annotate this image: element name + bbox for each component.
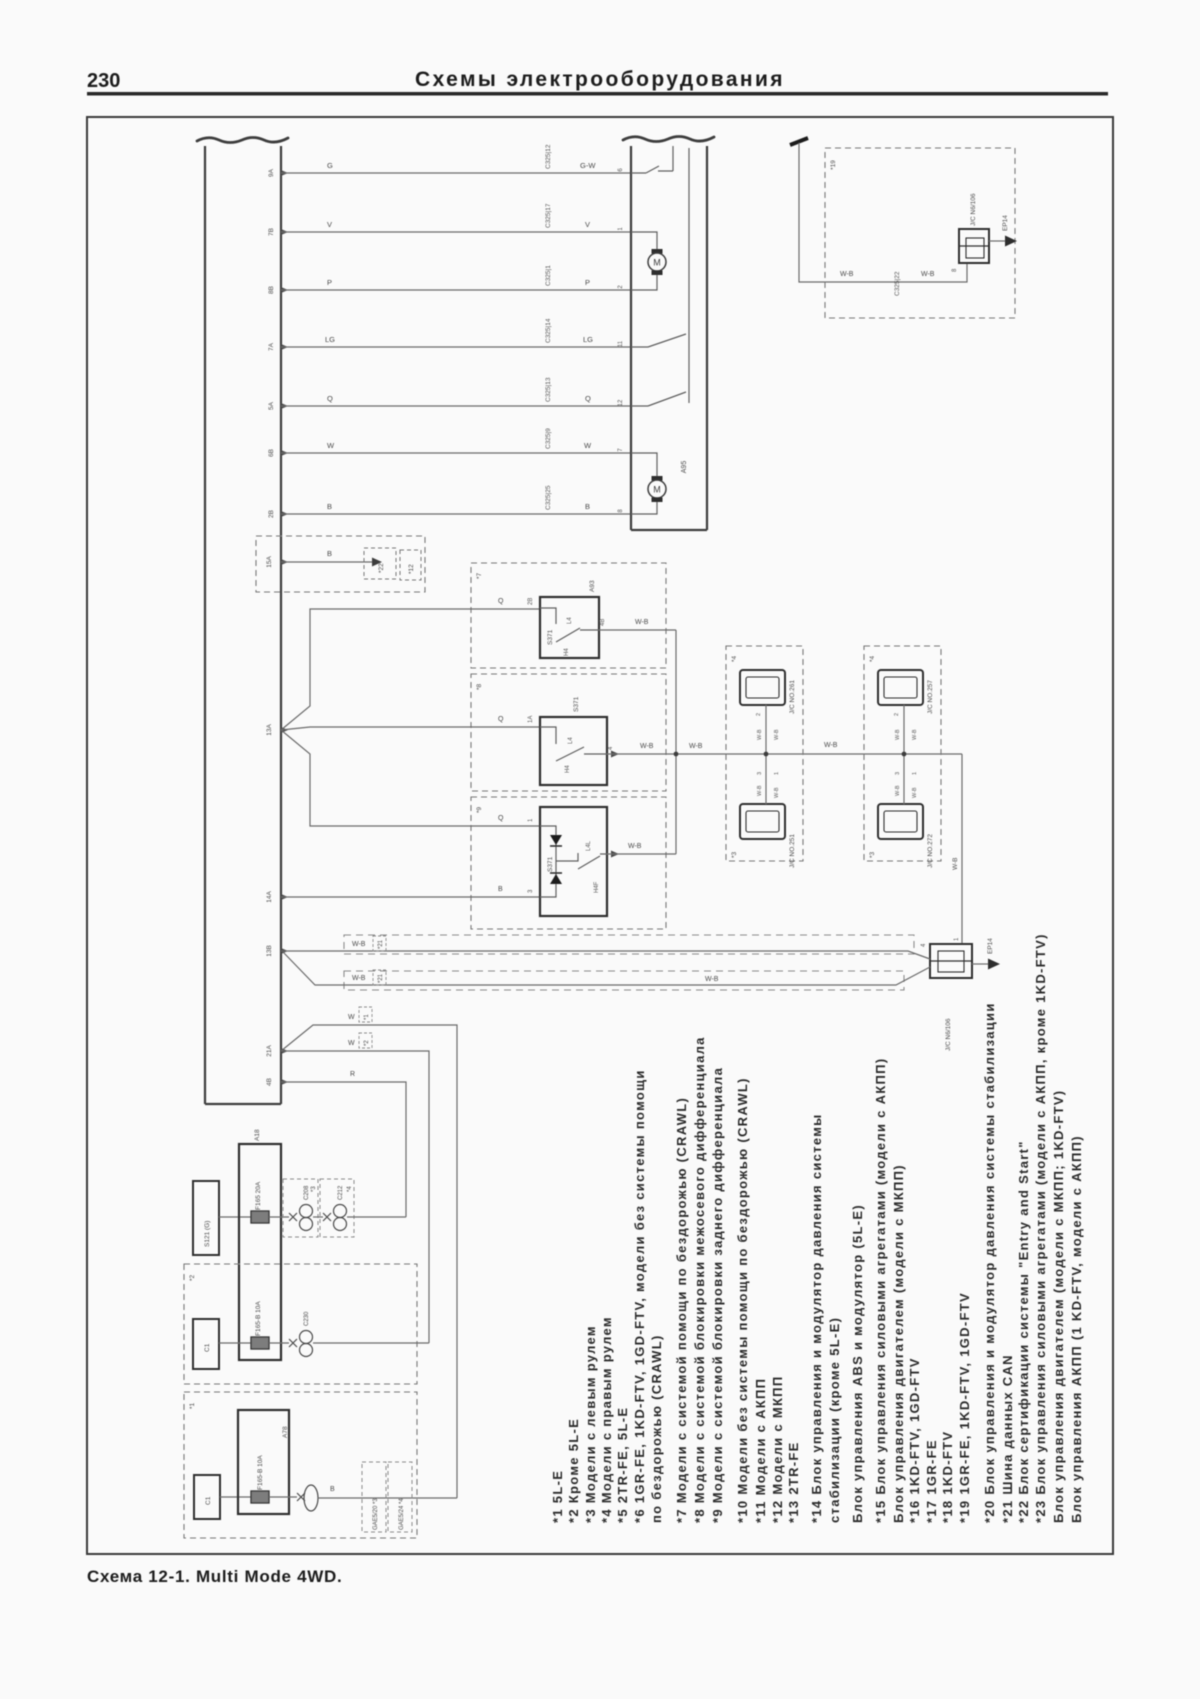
dashed box *2 outer (184, 1264, 417, 1384)
svg-text:*22 Блок сертификации системы: *22 Блок сертификации системы "Entry and… (1016, 1140, 1031, 1523)
wire B to certification unit (281, 561, 372, 563)
svg-text:12: 12 (618, 399, 624, 406)
svg-text:G: G (327, 161, 333, 170)
svg-text:3: 3 (528, 889, 534, 893)
fuse F165-B A78 element (251, 1491, 269, 1503)
svg-text:7A: 7A (268, 342, 275, 351)
wire C212 onward (347, 1216, 406, 1218)
wire B (2B to A95 pin 8) (281, 513, 631, 515)
motor M1 feed (V) (631, 232, 657, 250)
wire V (7B to A95 pin 1) (281, 231, 631, 233)
svg-text:2: 2 (894, 713, 900, 716)
connector C208 X (289, 1213, 297, 1221)
relay S371-3 internal stem (540, 826, 556, 897)
dashed box *1 outer (184, 1392, 417, 1538)
wire S121 to fuse (219, 1216, 251, 1218)
pin tick 14A (281, 894, 288, 900)
relay A93 out wire W-B (599, 629, 676, 631)
svg-text:GAE5/24 *4: GAE5/24 *4 (399, 1498, 405, 1530)
svg-text:*6 1GR-FE, 1KD-FTV, 1GD-FTV, м: *6 1GR-FE, 1KD-FTV, 1GD-FTV, модели без … (632, 1069, 647, 1523)
svg-text:*9 Модели с системой блокировк: *9 Модели с системой блокировки заднего … (710, 1067, 725, 1523)
svg-text:4: 4 (608, 746, 614, 750)
relay S371-3 out arrow (611, 851, 619, 858)
dashed box *22 (364, 548, 396, 579)
svg-text:2B: 2B (268, 510, 275, 518)
ground feed wire W-B (799, 143, 967, 282)
wire 14A to relay S371-3 low (281, 896, 540, 898)
svg-text:J/C N6/106: J/C N6/106 (945, 1018, 952, 1051)
svg-text:EP14: EP14 (1002, 215, 1009, 231)
svg-text:6: 6 (618, 168, 624, 172)
pin tick 9A (281, 170, 288, 176)
internal bus line (688, 148, 690, 403)
J/C NO.272 outer (878, 804, 923, 839)
fuse F165 element (251, 1211, 269, 1223)
pair2 junction dot (902, 752, 907, 757)
svg-text:C325|13: C325|13 (545, 377, 552, 402)
svg-text:*7 Модели с системой помощи по: *7 Модели с системой помощи по бездорожь… (674, 1097, 689, 1523)
dashed tag high (373, 936, 386, 951)
svg-text:C325|12: C325|12 (545, 144, 552, 169)
ECU bus right edge wire (280, 146, 282, 1104)
motor M2 return (B) (631, 501, 657, 514)
svg-text:V: V (585, 220, 590, 229)
svg-text:GAE5/20 *3: GAE5/20 *3 (373, 1498, 379, 1530)
svg-text:W-B: W-B (352, 975, 366, 982)
svg-text:*2 Кроме 5L-E: *2 Кроме 5L-E (566, 1418, 581, 1523)
motor M2 feed (W) (631, 453, 657, 477)
svg-text:L4: L4 (568, 737, 574, 744)
svg-text:Q: Q (498, 815, 504, 822)
motor M2 body (648, 480, 666, 498)
svg-text:*16 1KD-FTV, 1GD-FTV: *16 1KD-FTV, 1GD-FTV (907, 1357, 922, 1523)
motor M1 body (648, 253, 666, 271)
motor M1 return (P) (631, 274, 657, 290)
junction J/C No.6/106 inner (966, 238, 984, 258)
svg-text:Схема 12-1. Multi Mode 4WD.: Схема 12-1. Multi Mode 4WD. (87, 1567, 342, 1586)
svg-text:W: W (348, 1014, 355, 1021)
svg-text:13A: 13A (266, 724, 273, 736)
dashed box pair2 (864, 646, 941, 861)
svg-text:6B: 6B (268, 449, 275, 457)
svg-text:J/C N6/106: J/C N6/106 (970, 193, 977, 226)
junction dot collector (674, 752, 679, 757)
connector oval (304, 1485, 318, 1511)
actuator A95 box bottom edge (631, 529, 707, 531)
dashed shield CAN low (344, 971, 904, 990)
svg-text:W: W (348, 1040, 355, 1047)
svg-text:P: P (585, 278, 590, 287)
svg-text:*5 2TR-FE, 5L-E: *5 2TR-FE, 5L-E (615, 1407, 630, 1523)
fuse F165-B element (251, 1337, 269, 1349)
fan wire 13A to relay A93 (281, 609, 540, 730)
svg-text:стабилизации (кроме 5L-E): стабилизации (кроме 5L-E) (827, 1317, 842, 1523)
svg-text:1: 1 (954, 937, 960, 941)
svg-text:W-B: W-B (774, 729, 780, 740)
svg-text:8: 8 (952, 268, 958, 272)
svg-text:B: B (585, 502, 590, 511)
svg-text:B: B (327, 549, 332, 558)
svg-text:C230: C230 (304, 1311, 310, 1326)
svg-text:C212: C212 (338, 1185, 344, 1200)
svg-text:9A: 9A (268, 168, 275, 177)
svg-text:A78: A78 (282, 1426, 289, 1438)
motor M2 brush top (652, 476, 663, 481)
J/C NO.261 inner (746, 677, 779, 698)
wire Q (5A to A95 pin 12) (281, 405, 631, 407)
fuse block A78 (238, 1410, 289, 1514)
ECU bus torn-top wavy break (197, 138, 288, 143)
dashed box *7 (471, 563, 666, 668)
svg-text:*11 Модели с АКПП: *11 Модели с АКПП (753, 1378, 768, 1523)
svg-text:*22: *22 (378, 563, 385, 573)
svg-text:M: M (653, 485, 661, 495)
dashed tag *2 (359, 1033, 372, 1048)
svg-text:W-B: W-B (689, 743, 703, 750)
relay S371-2 out wire (607, 753, 962, 755)
dashed tag *1 (359, 1007, 372, 1022)
J/C NO.251 inner (746, 811, 779, 832)
header rule (87, 92, 1108, 96)
wire W (6B to A95 pin 7) (281, 452, 631, 454)
svg-text:*15 Блок управления силовыми а: *15 Блок управления силовыми агрегатами … (873, 1058, 888, 1523)
svg-text:C325|1: C325|1 (545, 265, 552, 286)
ground EP14 arrow (988, 959, 1000, 970)
svg-text:Блок управления ABS и модулято: Блок управления ABS и модулятор (5L-E) (850, 1204, 865, 1523)
svg-text:J/C NO.272: J/C NO.272 (927, 834, 934, 868)
connector oval X (297, 1493, 305, 1501)
schematic outer border frame (87, 117, 1113, 1554)
svg-text:11: 11 (618, 340, 624, 347)
J/C NO.257 outer (878, 670, 923, 705)
pair1 link wire (765, 705, 767, 804)
svg-text:Блок управления двигателем (мо: Блок управления двигателем (модели с МКП… (891, 1164, 906, 1523)
pin tick 7A (281, 344, 288, 350)
svg-text:W: W (584, 441, 592, 450)
relay S371-3 out wire (607, 853, 676, 855)
svg-text:7B: 7B (268, 228, 275, 236)
connector C208 circle2 (300, 1218, 313, 1231)
dashed box pair1 (726, 646, 803, 861)
relay S371-2 internals (540, 727, 607, 761)
connector C1 lower box (194, 1475, 220, 1519)
svg-text:Схемы электрооборудования: Схемы электрооборудования (415, 68, 785, 91)
fuse block A18 (239, 1144, 281, 1360)
pin tick 6B (281, 450, 288, 456)
J/C NO.251 outer (740, 804, 785, 839)
svg-text:LG: LG (583, 335, 593, 344)
svg-text:A93: A93 (589, 580, 596, 592)
diode D2 bar (550, 872, 562, 874)
pin tick 15A (281, 559, 288, 565)
svg-text:13B: 13B (266, 945, 273, 957)
svg-text:1: 1 (528, 818, 534, 822)
junction divider (930, 960, 972, 962)
svg-text:*2: *2 (364, 1040, 370, 1046)
svg-text:4B: 4B (266, 1078, 273, 1086)
wire C230 onward (313, 1342, 429, 1344)
svg-text:H4F: H4F (594, 881, 600, 893)
svg-text:W-B: W-B (774, 787, 780, 798)
svg-text:*1: *1 (189, 1402, 196, 1409)
svg-text:*21 Шина данных CAN: *21 Шина данных CAN (1000, 1354, 1015, 1523)
switch S121 box (193, 1181, 219, 1255)
svg-text:H4: H4 (565, 765, 571, 773)
svg-text:Блок управления АКПП (1 KD-FTV: Блок управления АКПП (1 KD-FTV, модели с… (1069, 1135, 1084, 1523)
svg-text:*3: *3 (311, 1186, 317, 1192)
svg-text:F165-B 10A: F165-B 10A (257, 1455, 264, 1490)
feed wire W *2 (281, 1051, 429, 1343)
dashed box around 15A wire (256, 536, 425, 592)
pin tick 7B (281, 229, 288, 235)
svg-text:C325|14: C325|14 (545, 318, 552, 343)
wire C208 to C212 (313, 1216, 323, 1218)
svg-text:W-B: W-B (757, 729, 763, 740)
svg-text:*8 Модели с системой блокировк: *8 Модели с системой блокировки межосево… (692, 1036, 707, 1523)
pin tick 13A (281, 727, 288, 733)
svg-text:230: 230 (87, 70, 120, 92)
pair2 link wire (903, 705, 905, 804)
W-B down wire (961, 754, 963, 944)
wire arrowhead (372, 558, 382, 567)
svg-text:W-B: W-B (640, 743, 654, 750)
svg-text:W-B: W-B (628, 843, 642, 850)
svg-text:P: P (327, 278, 332, 287)
actuator A95 box left edge (630, 146, 632, 530)
svg-text:3: 3 (757, 772, 763, 775)
svg-text:C325|17: C325|17 (545, 203, 552, 228)
svg-text:*21: *21 (378, 973, 384, 983)
svg-text:Блок управления двигателем (мо: Блок управления двигателем (модели с МКП… (1051, 1090, 1066, 1523)
svg-text:L4L: L4L (586, 840, 592, 851)
svg-text:C325|22: C325|22 (894, 271, 901, 296)
svg-text:A18: A18 (254, 1129, 261, 1141)
svg-text:G-W: G-W (580, 161, 596, 170)
W-B collector line (675, 630, 677, 854)
wire to ground EP14 (989, 240, 1005, 242)
svg-text:*4: *4 (731, 655, 738, 662)
diode D1 (550, 835, 562, 845)
svg-text:2: 2 (756, 713, 762, 716)
svg-text:*3 Модели с левым рулем: *3 Модели с левым рулем (583, 1325, 598, 1523)
ECU bus bottom edge (205, 1103, 281, 1105)
actuator A95 box right edge (706, 146, 708, 530)
svg-text:1: 1 (774, 772, 780, 775)
svg-text:W-B: W-B (352, 941, 366, 948)
motor M1 brush top (652, 249, 663, 254)
relay S371-3 box (540, 807, 607, 916)
svg-text:C325|25: C325|25 (545, 485, 552, 510)
connector C212 circle2 (334, 1218, 347, 1231)
junction J/C No.6/106 divider (959, 245, 989, 247)
relay S371-2 box (540, 717, 607, 785)
diode D1 bar (550, 845, 562, 847)
svg-text:*12 Модели с МКПП: *12 Модели с МКПП (770, 1376, 785, 1523)
J/C NO.257 inner (884, 677, 917, 698)
svg-text:W-B: W-B (635, 619, 649, 626)
svg-text:*7: *7 (476, 572, 483, 579)
svg-text:8: 8 (618, 509, 624, 513)
J/C NO.272 inner (884, 811, 917, 832)
wire C1 to fuse A78 (220, 1496, 251, 1498)
svg-text:4B: 4B (600, 619, 606, 626)
svg-text:Q: Q (327, 394, 333, 403)
svg-text:W-B: W-B (912, 787, 918, 798)
svg-text:Q: Q (585, 394, 591, 403)
svg-text:B: B (498, 886, 503, 893)
svg-text:L4: L4 (567, 617, 573, 624)
dashed box *12 (400, 550, 421, 580)
svg-text:F165-B 10A: F165-B 10A (255, 1301, 262, 1336)
svg-text:*21: *21 (378, 939, 384, 949)
svg-text:*1 5L-E: *1 5L-E (550, 1470, 565, 1523)
pin tick 5A (281, 403, 288, 409)
svg-text:W-B: W-B (840, 271, 854, 278)
pin tick 2B (281, 511, 288, 517)
svg-text:W-B: W-B (757, 785, 763, 796)
svg-text:F165 20A: F165 20A (255, 1181, 262, 1210)
svg-text:W-B: W-B (895, 785, 901, 796)
svg-text:R: R (350, 1071, 355, 1078)
svg-text:LG: LG (325, 335, 335, 344)
svg-text:C1: C1 (204, 1343, 211, 1352)
wire G (9A to A95 pin 6) (281, 172, 631, 174)
svg-text:*4 Модели с правым рулем: *4 Модели с правым рулем (599, 1316, 614, 1523)
svg-text:H4: H4 (564, 648, 570, 656)
connector C230 X (289, 1339, 297, 1347)
svg-text:C208: C208 (304, 1185, 310, 1200)
ECU bus left edge wire (204, 146, 206, 1104)
svg-text:*10 Модели без системы помощи: *10 Модели без системы помощи по бездоро… (735, 1077, 750, 1523)
dashed tag low (373, 970, 386, 985)
svg-text:S371: S371 (547, 856, 554, 872)
motor M1 brush bottom (652, 271, 663, 276)
pin tick 4B (281, 1079, 288, 1085)
svg-text:B: B (330, 1486, 335, 1493)
relay A93 box (540, 597, 599, 658)
relay S371-2 out arrow (611, 751, 619, 758)
pin tick 21A (281, 1048, 288, 1054)
CAN low wire (283, 952, 930, 985)
fan wire 13A to relay S371-2 (281, 727, 540, 730)
svg-text:Q: Q (498, 716, 504, 723)
svg-text:*2: *2 (189, 1274, 196, 1281)
svg-text:Q: Q (498, 598, 504, 605)
relay A93 internals (540, 608, 599, 642)
dashed box *19 (825, 148, 1015, 318)
dashed box *9 (471, 797, 666, 929)
feed wire R (281, 1082, 406, 1217)
feed wire W *1 (281, 1025, 457, 1498)
svg-text:*8: *8 (476, 683, 483, 690)
pin tick 13B (281, 948, 288, 954)
junction J/C N6/106 lower outer (930, 944, 972, 978)
dashed box *3 (283, 1179, 318, 1237)
svg-text:*20 Блок управления и модулято: *20 Блок управления и модулятор давления… (982, 1002, 997, 1523)
wire C1 to fuse2 (219, 1342, 251, 1344)
junction inner (938, 951, 964, 972)
svg-text:B: B (327, 502, 332, 511)
svg-text:W-B: W-B (912, 729, 918, 740)
svg-text:M: M (653, 258, 661, 268)
wire oval to GAE (318, 1497, 457, 1499)
svg-text:14A: 14A (266, 891, 273, 903)
svg-text:*14 Блок управления и модулято: *14 Блок управления и модулятор давления… (809, 1113, 824, 1523)
svg-text:*19: *19 (830, 160, 837, 170)
dashed box *4 (320, 1179, 354, 1237)
motor M2 brush bottom (652, 498, 663, 503)
svg-text:J/C NO.251: J/C NO.251 (789, 834, 796, 868)
svg-text:5A: 5A (268, 401, 275, 410)
wire LG (7A to A95 pin 11) (281, 346, 631, 348)
svg-text:*17 1GR-FE: *17 1GR-FE (924, 1439, 939, 1523)
svg-text:8B: 8B (268, 286, 275, 294)
svg-text:1: 1 (618, 227, 624, 231)
connector C1 upper box (193, 1319, 219, 1369)
connector C212 circles (334, 1205, 347, 1218)
svg-text:W-B: W-B (952, 857, 959, 870)
svg-text:3: 3 (895, 772, 901, 775)
fan wire 13A to relay S371-3 (281, 730, 540, 826)
svg-text:EP14: EP14 (987, 938, 994, 954)
svg-text:V: V (327, 220, 332, 229)
svg-text:W-B: W-B (921, 271, 935, 278)
svg-text:2B: 2B (528, 598, 534, 605)
switch S3 blade (Q) (631, 392, 686, 406)
pair1 junction dot (764, 752, 769, 757)
CAN high wire (281, 951, 930, 959)
fuse F165-B lead (269, 1342, 289, 1344)
svg-text:4: 4 (921, 943, 927, 947)
svg-text:*1: *1 (364, 1014, 370, 1020)
svg-text:S121 (G): S121 (G) (204, 1221, 211, 1247)
dashed shield CAN high (344, 935, 914, 954)
svg-text:W: W (327, 441, 335, 450)
connector C230 circles (300, 1331, 313, 1344)
svg-text:*3: *3 (869, 851, 876, 858)
switch S1 blade (G-W) (631, 146, 673, 173)
J/C NO.261 outer (740, 670, 785, 705)
dashed box GAE5/24 (388, 1462, 412, 1532)
svg-text:W-B: W-B (895, 729, 901, 740)
svg-text:*12: *12 (408, 564, 415, 574)
svg-text:S371: S371 (547, 629, 554, 645)
svg-text:*19 1GR-FE, 1KD-FTV, 1GD-FTV: *19 1GR-FE, 1KD-FTV, 1GD-FTV (957, 1292, 972, 1523)
wire P (8B to A95 pin 2) (281, 289, 631, 291)
wire to EP14 (972, 963, 988, 965)
fuse A78 lead (269, 1496, 297, 1498)
junction J/C No.6/106 outer (959, 229, 989, 263)
svg-text:C1: C1 (205, 1496, 212, 1505)
dashed box GAE5/20 (362, 1462, 386, 1532)
svg-text:S371: S371 (573, 696, 580, 712)
svg-text:*4: *4 (869, 655, 876, 662)
diode D2 (550, 874, 562, 884)
connector C230 circle2 (300, 1344, 313, 1357)
svg-text:по бездорожью (CRAWL): по бездорожью (CRAWL) (649, 1334, 664, 1523)
svg-text:*4: *4 (347, 1186, 353, 1192)
svg-text:*13 2TR-FE: *13 2TR-FE (786, 1441, 801, 1523)
fuse F165 lead (269, 1216, 289, 1218)
svg-text:*23 Блок управления силовыми а: *23 Блок управления силовыми агрегатами … (1033, 933, 1048, 1523)
actuator A95 torn-top wavy break (623, 137, 714, 142)
ground point EP14 arrow (1005, 236, 1017, 247)
svg-text:W-B: W-B (824, 742, 838, 749)
relay S371-3 switch (556, 853, 607, 869)
dashed box *8 (471, 674, 666, 791)
svg-text:*9: *9 (476, 806, 483, 813)
svg-text:C325|9: C325|9 (545, 428, 552, 449)
